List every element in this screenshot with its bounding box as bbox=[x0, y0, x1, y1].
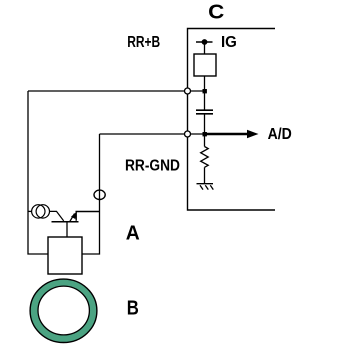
connector pin circle RR+B bbox=[185, 88, 191, 94]
transistor Q1 base lead bbox=[50, 211, 64, 221]
svg-text:RR+B: RR+B bbox=[127, 34, 160, 51]
sensor box A bbox=[48, 237, 82, 274]
label C bbox=[208, 1, 224, 23]
connector pin circle RR-GND bbox=[185, 131, 191, 137]
ground bbox=[197, 184, 214, 190]
rotor ring B outer bbox=[30, 279, 97, 342]
label A bbox=[126, 223, 140, 245]
IG terminal crossbar bbox=[196, 41, 213, 43]
wire transistor to sensor box bbox=[66, 222, 68, 237]
label IG bbox=[221, 34, 237, 51]
resistor R2 bbox=[201, 136, 209, 167]
wire RR+B row bbox=[28, 90, 205, 92]
svg-text:C: C bbox=[208, 1, 224, 23]
IG terminal dot bbox=[202, 39, 208, 45]
wire resistor to ground bbox=[204, 167, 206, 183]
label B bbox=[127, 298, 139, 320]
junction square RR-GND bbox=[203, 132, 207, 136]
svg-text:RR-GND: RR-GND bbox=[125, 158, 180, 175]
wire IG dot to resistor box bbox=[204, 42, 206, 54]
label A/D bbox=[268, 126, 292, 143]
wire box to RR+B node bbox=[204, 76, 206, 91]
junction square RR+B bbox=[203, 89, 207, 93]
capacitor C1 bbox=[196, 110, 213, 114]
wire sensor right side bbox=[82, 134, 100, 254]
wire capacitor top lead bbox=[204, 91, 206, 110]
wire RR-GND row bbox=[100, 133, 205, 135]
resistor box R1 bbox=[194, 54, 216, 76]
svg-text:A/D: A/D bbox=[268, 126, 292, 143]
label RR+B bbox=[127, 34, 160, 51]
pickup coil circles bbox=[32, 205, 50, 218]
connector C outline bbox=[188, 29, 276, 211]
wire left stub to pickup coil bbox=[28, 210, 32, 212]
wire sensor left side bbox=[28, 91, 48, 254]
wire capacitor bottom lead bbox=[204, 114, 206, 134]
transistor collector wire bbox=[76, 212, 99, 221]
connector pin ellipse on sensor wire bbox=[94, 190, 105, 199]
A/D arrow bbox=[206, 130, 259, 138]
rotor ring B inner bbox=[38, 286, 89, 335]
label RR-GND bbox=[125, 158, 180, 175]
svg-text:B: B bbox=[127, 298, 139, 320]
svg-text:IG: IG bbox=[221, 34, 237, 51]
transistor Q1 base bar bbox=[52, 221, 79, 223]
svg-text:A: A bbox=[126, 223, 140, 245]
transistor Q1 emitter arrow bbox=[70, 212, 76, 221]
